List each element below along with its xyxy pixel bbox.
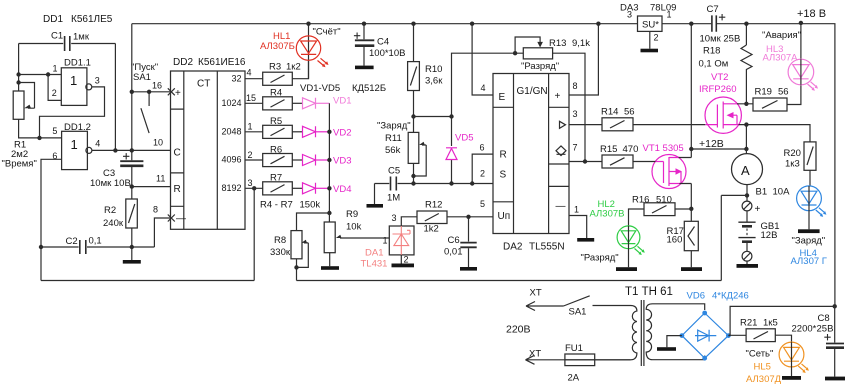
- pin 15 stub: [245, 93, 263, 103]
- resistor R7: [263, 173, 303, 195]
- wire cathode bus: [327, 103, 331, 215]
- svg-text:R20: R20: [784, 148, 801, 159]
- battery GB1: [738, 211, 779, 251]
- svg-text:SA1: SA1: [569, 307, 587, 318]
- label +18V: [797, 8, 826, 20]
- svg-text:+: +: [755, 204, 761, 215]
- svg-text:SA1: SA1: [133, 72, 151, 83]
- svg-text:R19: R19: [755, 87, 772, 98]
- svg-text:R21: R21: [740, 318, 757, 329]
- resistor R16: [629, 195, 692, 226]
- svg-text:2: 2: [654, 33, 659, 43]
- capacitor C7: [700, 4, 741, 45]
- svg-text:6: 6: [480, 143, 485, 153]
- svg-text:XT: XT: [529, 349, 541, 360]
- svg-text:1: 1: [53, 63, 58, 73]
- svg-text:1М: 1М: [387, 193, 400, 204]
- ground under R2: [123, 247, 141, 264]
- svg-text:56k: 56k: [385, 145, 401, 156]
- terminal XT bottom: [526, 349, 565, 365]
- svg-text:1: 1: [71, 137, 78, 152]
- svg-text:TL555N: TL555N: [529, 242, 565, 253]
- battery terminal top: [742, 201, 760, 215]
- svg-text:2048: 2048: [221, 126, 241, 136]
- svg-text:56: 56: [624, 107, 635, 118]
- svg-text:R14: R14: [601, 107, 618, 118]
- capacitor C4: [354, 22, 406, 70]
- svg-text:E: E: [499, 92, 506, 103]
- node VT2 drain: [744, 102, 748, 106]
- wire VD5 to R13: [452, 51, 524, 117]
- svg-text:C2: C2: [66, 236, 78, 247]
- resistor R2: [103, 187, 137, 247]
- resistor R10: [408, 22, 444, 119]
- svg-text:56: 56: [778, 87, 789, 98]
- wire +12V rail: [689, 138, 749, 151]
- svg-text:3: 3: [392, 213, 397, 223]
- svg-text:R9: R9: [346, 209, 358, 220]
- svg-text:R15: R15: [600, 144, 617, 155]
- resistor R1 potentiometer: [2, 83, 37, 170]
- wire R10 node to VD5 node: [414, 114, 454, 118]
- resistor R12: [417, 200, 493, 235]
- svg-text:VT1 5305: VT1 5305: [643, 143, 684, 154]
- wire DD1.2 out to C pin: [92, 148, 171, 152]
- svg-text:R: R: [174, 184, 181, 195]
- resistor R20: [784, 142, 817, 186]
- label HL4: [791, 236, 827, 268]
- label HL5: [746, 349, 782, 386]
- wire R row: [130, 184, 171, 188]
- wire secondary bottom: [653, 356, 705, 360]
- gate DD1.1: [19, 58, 100, 106]
- svg-text:160: 160: [667, 235, 683, 246]
- pin 6 label: [480, 143, 485, 153]
- fuse FU1: [565, 343, 631, 384]
- svg-text:G1/GN: G1/GN: [517, 86, 548, 97]
- chip DD2 K561IE16: [171, 57, 246, 229]
- pin 2 stub: [245, 150, 263, 160]
- capacitor C2: [41, 236, 154, 255]
- svg-text:S: S: [500, 170, 507, 181]
- diode VD5: [446, 117, 473, 186]
- svg-text:VD1: VD1: [333, 96, 351, 107]
- svg-text:7: 7: [573, 143, 578, 153]
- capacitor C3: [90, 150, 143, 189]
- wire bridge out up: [728, 306, 834, 335]
- resistor R21: [728, 318, 791, 343]
- pin 1 ground: [569, 205, 594, 242]
- svg-text:100*10В: 100*10В: [369, 48, 405, 59]
- svg-text:"Заряд": "Заряд": [377, 121, 411, 132]
- potentiometer R13: [515, 37, 590, 162]
- wire +9V top rail: [132, 24, 835, 307]
- svg-text:1: 1: [248, 122, 253, 132]
- bridge VD6: [680, 291, 749, 361]
- svg-text:1024: 1024: [221, 98, 241, 108]
- svg-text:8: 8: [153, 205, 158, 215]
- wire pin6 left chain: [39, 159, 62, 280]
- svg-text:DD1: DD1: [43, 14, 63, 25]
- resistor R5: [263, 116, 303, 138]
- svg-text:16: 16: [152, 81, 162, 91]
- svg-text:DD1.1: DD1.1: [64, 58, 91, 69]
- svg-text:1: 1: [70, 73, 77, 88]
- wire pin8 branch: [154, 218, 170, 247]
- svg-text:К561ИЕ16: К561ИЕ16: [198, 57, 246, 68]
- svg-text:4*КД246: 4*КД246: [712, 291, 749, 302]
- svg-text:—: —: [176, 214, 186, 225]
- diode VD1: [303, 96, 352, 109]
- resistor R8 potentiometer: [270, 231, 308, 281]
- svg-text:R: R: [500, 150, 507, 161]
- chip DA2 TL555N: [493, 74, 569, 253]
- svg-text:DA1: DA1: [365, 248, 383, 259]
- wire bus to R8: [297, 213, 330, 231]
- svg-text:C: C: [174, 148, 181, 159]
- svg-text:VD3: VD3: [333, 156, 351, 167]
- resistor R11 potentiometer: [377, 117, 426, 186]
- resistor R3: [263, 60, 309, 85]
- wire 8192 to bottom rail: [253, 188, 255, 280]
- svg-text:1к3: 1к3: [785, 159, 800, 170]
- wire R1 top node: [16, 44, 20, 92]
- label Razryad2: [581, 253, 619, 264]
- svg-text:C5: C5: [388, 166, 400, 177]
- svg-text:АЛ307 Г: АЛ307 Г: [791, 256, 827, 267]
- label Schet: [313, 27, 341, 38]
- LED HL5: [779, 342, 809, 380]
- svg-text:150k: 150k: [300, 200, 321, 211]
- svg-text:10k: 10k: [346, 222, 362, 233]
- pin 2 label: [480, 169, 485, 179]
- resistor R6: [263, 144, 303, 166]
- resistor R9 potentiometer: [321, 209, 389, 270]
- svg-text:9,1k: 9,1k: [572, 38, 590, 49]
- label 220V: [506, 324, 531, 336]
- svg-text:C7: C7: [707, 4, 719, 15]
- svg-text:+: +: [555, 91, 561, 102]
- svg-text:R3: R3: [269, 62, 281, 73]
- pin 1 stub: [245, 122, 263, 132]
- pin 4 E wire: [470, 22, 493, 96]
- gate DD1.2: [19, 119, 101, 169]
- node VT1 source: [689, 207, 693, 211]
- capacitor C8: [792, 304, 846, 380]
- ground bridge left: [657, 336, 682, 351]
- svg-text:1: 1: [667, 10, 672, 20]
- wire +18 to +12 vertical: [689, 22, 693, 150]
- svg-text:АЛ307Д: АЛ307Д: [746, 374, 782, 385]
- wire right common rail: [297, 280, 722, 282]
- transformer T1: [565, 286, 673, 366]
- svg-text:15: 15: [246, 93, 256, 103]
- svg-text:5: 5: [480, 199, 485, 209]
- svg-text:R2: R2: [104, 205, 116, 216]
- svg-text:3: 3: [248, 178, 253, 188]
- label DD1: [43, 14, 113, 25]
- pin 5 label: [480, 199, 485, 209]
- svg-text:5: 5: [52, 126, 57, 136]
- switch SA1 mains: [564, 296, 590, 318]
- LED HL3: [788, 21, 818, 91]
- wire DD1.1 out feedback: [40, 87, 105, 138]
- svg-text:4: 4: [481, 83, 486, 93]
- svg-text:10мк 25В: 10мк 25В: [700, 34, 741, 45]
- svg-text:R8: R8: [274, 235, 286, 246]
- pin 4 stub: [245, 67, 263, 78]
- svg-text:VT2: VT2: [711, 72, 728, 83]
- svg-text:1к2: 1к2: [286, 62, 301, 73]
- resistor R19: [746, 85, 801, 111]
- svg-text:АЛ307Б: АЛ307Б: [260, 41, 295, 52]
- wire battery branch to rail: [721, 195, 747, 280]
- svg-text:IRFP260: IRFP260: [699, 84, 737, 95]
- svg-text:78L09: 78L09: [650, 3, 676, 14]
- svg-text:VD2: VD2: [333, 127, 351, 138]
- svg-text:"Время": "Время": [2, 159, 37, 170]
- svg-text:3,6к: 3,6к: [425, 76, 443, 87]
- LED HL2: [616, 226, 645, 271]
- pin 3 wire: [569, 109, 602, 125]
- svg-text:2: 2: [52, 88, 57, 98]
- svg-text:330к: 330к: [270, 247, 291, 258]
- svg-text:VD4: VD4: [333, 184, 351, 195]
- battery terminal bottom: [737, 251, 759, 267]
- diode VD4: [303, 183, 352, 195]
- wire DA1 pin3: [392, 213, 418, 226]
- svg-text:XT: XT: [530, 288, 542, 299]
- svg-text:Uп: Uп: [498, 211, 511, 222]
- svg-text:VD5: VD5: [455, 133, 473, 144]
- svg-text:A: A: [741, 163, 750, 178]
- svg-text:АЛ307В: АЛ307В: [590, 209, 625, 220]
- svg-text:VD1-VD5: VD1-VD5: [300, 83, 340, 94]
- resistor R14: [601, 107, 635, 131]
- svg-text:VD6: VD6: [687, 291, 705, 302]
- svg-text:11: 11: [156, 174, 165, 184]
- transistor VT1 5305: [633, 143, 691, 209]
- svg-text:C8: C8: [818, 313, 830, 324]
- pin 10 label: [153, 138, 163, 148]
- svg-text:B1: B1: [756, 187, 768, 198]
- svg-text:TL431: TL431: [361, 259, 388, 270]
- svg-text:10: 10: [153, 138, 163, 148]
- transistor VT2 IRFP260: [633, 72, 746, 133]
- svg-text:CT: CT: [197, 79, 210, 90]
- resistor R17: [667, 209, 703, 271]
- svg-text:3: 3: [95, 75, 100, 85]
- svg-text:2200*: 2200*: [792, 324, 817, 335]
- capacitor C5: [367, 166, 494, 208]
- pin 7 wire: [569, 143, 602, 164]
- svg-text:"Счёт": "Счёт": [313, 27, 341, 38]
- svg-text:3: 3: [627, 10, 632, 20]
- svg-text:2A: 2A: [568, 373, 580, 384]
- svg-text:240к: 240к: [103, 218, 124, 229]
- svg-text:C1: C1: [51, 31, 63, 42]
- switch SA1 start: [130, 62, 171, 133]
- svg-text:470: 470: [623, 144, 639, 155]
- capacitor C6: [444, 215, 477, 271]
- diode VD2: [303, 126, 352, 138]
- svg-text:0,1: 0,1: [89, 236, 102, 247]
- svg-text:0,1 Ом: 0,1 Ом: [699, 59, 729, 70]
- output labels: [221, 74, 241, 193]
- resistor R18: [699, 22, 753, 104]
- svg-text:1к5: 1к5: [763, 318, 778, 329]
- pin 3 stub: [245, 178, 263, 191]
- svg-text:25В: 25В: [817, 324, 834, 335]
- svg-text:"Разряд": "Разряд": [581, 253, 619, 264]
- wire bottom common rail: [41, 280, 254, 282]
- svg-text:"Авария": "Авария": [762, 30, 801, 41]
- svg-text:"Разряд": "Разряд": [521, 61, 559, 72]
- svg-text:32: 32: [231, 74, 241, 84]
- svg-text:1k2: 1k2: [424, 224, 439, 235]
- svg-text:4096: 4096: [221, 155, 241, 165]
- pin 8 wire: [569, 22, 601, 96]
- svg-text:+18 В: +18 В: [797, 8, 826, 20]
- terminal XT top: [526, 288, 564, 311]
- svg-text:2: 2: [480, 169, 485, 179]
- svg-text:2: 2: [248, 150, 253, 160]
- svg-text:0,01: 0,01: [444, 247, 463, 258]
- pin 16 cross mark: [152, 81, 175, 96]
- svg-text:R12: R12: [425, 200, 442, 211]
- svg-text:DA2: DA2: [503, 242, 523, 253]
- svg-text:1: 1: [574, 205, 579, 215]
- resistor R15: [600, 144, 638, 168]
- svg-text:10A: 10A: [773, 187, 791, 198]
- svg-text:+: +: [175, 88, 181, 99]
- svg-text:4: 4: [95, 139, 100, 149]
- wire source to R20: [746, 125, 810, 142]
- svg-text:3: 3: [573, 109, 578, 119]
- svg-text:SU*: SU*: [642, 20, 659, 31]
- diode VD3: [303, 155, 352, 167]
- svg-text:К561ЛЕ5: К561ЛЕ5: [71, 14, 113, 25]
- ammeter B1: [732, 149, 791, 201]
- wire pin6 R branch: [470, 154, 493, 186]
- svg-text:1мк: 1мк: [73, 32, 90, 43]
- svg-text:"Заряд": "Заряд": [792, 236, 826, 247]
- svg-text:"Сеть": "Сеть": [746, 349, 774, 360]
- LED HL1: [296, 22, 328, 79]
- label VD1-VD5: [300, 83, 386, 94]
- node VT2 source: [744, 122, 748, 149]
- svg-text:R11: R11: [385, 133, 402, 144]
- svg-text:DD2: DD2: [173, 57, 193, 68]
- svg-text:HL5: HL5: [754, 362, 771, 373]
- svg-text:R4 - R7: R4 - R7: [260, 200, 293, 211]
- svg-text:FU1: FU1: [565, 343, 583, 354]
- pin 8 cross mark: [153, 205, 175, 222]
- svg-text:R18: R18: [703, 46, 720, 57]
- svg-text:2: 2: [404, 255, 409, 265]
- svg-text:АЛ307А: АЛ307А: [763, 53, 799, 64]
- svg-text:+12В: +12В: [699, 138, 724, 150]
- regulator DA3 78L09: [620, 3, 676, 53]
- pin 11 label: [156, 174, 165, 184]
- svg-text:12В: 12В: [761, 230, 778, 241]
- svg-text:10мк 10В: 10мк 10В: [90, 178, 131, 189]
- svg-text:8: 8: [573, 81, 578, 91]
- svg-text:220В: 220В: [506, 324, 531, 336]
- capacitor C1: [19, 31, 116, 151]
- svg-text:C4: C4: [377, 37, 389, 48]
- LED HL4: [797, 186, 827, 233]
- svg-text:—: —: [556, 201, 566, 212]
- svg-text:1: 1: [383, 236, 388, 246]
- resistor R4: [263, 88, 303, 110]
- svg-text:C6: C6: [448, 235, 460, 246]
- node rail-left corner: [131, 24, 133, 150]
- label HL1: [260, 31, 295, 52]
- label HL2: [590, 199, 625, 220]
- label R4-R7 value: [260, 200, 320, 211]
- svg-text:8192: 8192: [221, 183, 241, 193]
- svg-text:T1 ТН 61: T1 ТН 61: [625, 286, 673, 298]
- wire secondary top: [653, 304, 705, 310]
- svg-text:КД512Б: КД512Б: [352, 83, 386, 94]
- svg-text:R10: R10: [425, 64, 442, 75]
- label HL3: [762, 30, 801, 64]
- svg-text:4: 4: [247, 67, 252, 77]
- chip DA1 TL431: [361, 226, 415, 270]
